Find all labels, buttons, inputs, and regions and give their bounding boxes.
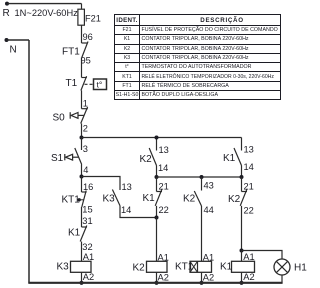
svg-text:4: 4	[83, 165, 88, 175]
svg-text:K2: K2	[228, 194, 241, 205]
svg-text:43: 43	[204, 181, 214, 191]
wire top branch line	[82, 137, 242, 139]
wire node3 to S1	[81, 138, 83, 151]
wire node4 to K3 contact	[82, 177, 121, 191]
contact K2 43-44 (NO)	[194, 191, 201, 206]
contact KT1 15-16 timed	[78, 191, 87, 208]
svg-text:A2: A2	[83, 272, 94, 282]
svg-text:1N~220V-60Hz: 1N~220V-60Hz	[15, 8, 79, 18]
coil K3	[71, 261, 92, 272]
svg-text:T1: T1	[66, 78, 78, 89]
svg-text:3: 3	[83, 144, 88, 154]
wire D down to K2 43	[201, 177, 203, 191]
junction K2-rail	[154, 281, 158, 285]
wire fuse to FT1	[81, 25, 83, 43]
wire to K1 coil	[241, 251, 243, 262]
contact T1 thermostat	[81, 76, 87, 90]
svg-text:14: 14	[158, 163, 168, 173]
svg-text:H1: H1	[294, 262, 307, 273]
wire line2 C to E	[157, 176, 242, 178]
wire K2 coil to rail	[156, 272, 158, 283]
svg-text:A2: A2	[243, 272, 254, 282]
svg-text:KT1: KT1	[175, 261, 194, 272]
wire FT1 to T1	[81, 58, 83, 78]
wire S0 to node2	[81, 124, 83, 138]
wire K2-22 to lamp junction	[241, 206, 243, 251]
node R supply dot	[5, 2, 9, 6]
svg-text:S0: S0	[53, 112, 66, 123]
node line2 E	[240, 175, 244, 179]
wire K1-14 to line2	[241, 166, 243, 178]
t-box link dashed	[85, 83, 94, 85]
svg-text:K1: K1	[223, 153, 236, 164]
legend table	[114, 14, 281, 100]
wire bottom rail	[28, 282, 282, 284]
svg-text:13: 13	[244, 144, 254, 154]
svg-text:16: 16	[83, 182, 93, 192]
svg-text:22: 22	[159, 205, 169, 215]
svg-text:A1: A1	[158, 252, 169, 262]
svg-text:96: 96	[83, 32, 93, 42]
svg-text:14: 14	[244, 162, 254, 172]
svg-text:95: 95	[81, 55, 91, 65]
pushbutton S1 (NO)	[65, 148, 82, 165]
svg-text:K2: K2	[140, 154, 153, 165]
svg-text:15: 15	[82, 205, 92, 215]
coil K2	[147, 261, 168, 272]
wire N rail vertical	[28, 40, 30, 283]
svg-text:1: 1	[83, 98, 88, 108]
svg-text:A1: A1	[203, 252, 214, 262]
svg-text:32: 32	[82, 242, 92, 252]
junction lamp tap	[240, 249, 244, 253]
svg-text:FT1: FT1	[62, 46, 80, 57]
node 2-3 junction	[80, 136, 84, 140]
svg-text:44: 44	[204, 205, 214, 215]
svg-text:S1: S1	[51, 153, 64, 164]
wire K1 coil to rail	[241, 272, 243, 283]
contact K1 31-32 (NC)	[80, 226, 87, 242]
contact K1 13-14 (NO)	[234, 148, 242, 166]
svg-text:21: 21	[159, 182, 169, 192]
wire lamp branch	[242, 251, 283, 260]
svg-text:2: 2	[83, 124, 88, 134]
contact K2 13-14 (NO)	[149, 148, 156, 166]
svg-text:K1: K1	[143, 193, 156, 204]
node line2 D	[200, 175, 204, 179]
svg-text:R: R	[3, 8, 10, 19]
svg-text:K1: K1	[68, 227, 81, 238]
svg-text:K2: K2	[183, 194, 196, 205]
wire K1-22 to junction	[156, 206, 158, 218]
node 4 junction	[80, 175, 84, 179]
svg-text:t°: t°	[97, 80, 103, 90]
wire C down to K1 21	[156, 177, 158, 192]
wire E down to K2 21	[241, 177, 243, 192]
svg-text:13: 13	[122, 182, 132, 192]
wire R rail horizontal	[7, 3, 82, 5]
wire K1-32 to K3 coil	[81, 242, 83, 262]
junction KT1-rail	[199, 281, 203, 285]
wire KT1 to K1 31	[81, 207, 83, 227]
svg-text:A1: A1	[243, 252, 254, 262]
wire K2-14 to line2	[156, 166, 158, 178]
wire K1 13 drop	[241, 138, 243, 151]
contact K3 13-14 (NO)	[112, 190, 120, 206]
svg-text:K3: K3	[103, 194, 116, 205]
svg-text:A1: A1	[83, 252, 94, 262]
wire K3-14 down and right to K2 coil branch	[120, 206, 157, 218]
svg-text:31: 31	[82, 216, 92, 226]
wire N horizontal	[7, 39, 30, 41]
svg-text:A2: A2	[158, 273, 169, 283]
contact K2 21-22 (NC)	[240, 190, 247, 206]
wire to K2 coil	[156, 218, 158, 262]
junction K3 link / K2 coil	[155, 216, 159, 220]
node top line K2 tap	[155, 136, 159, 140]
wire K3 coil to rail	[81, 272, 83, 283]
t-box	[94, 79, 107, 90]
node N supply dot	[5, 38, 9, 42]
junction K3-rail	[79, 281, 83, 285]
svg-text:22: 22	[244, 206, 254, 216]
svg-text:A2: A2	[203, 273, 214, 283]
svg-text:KT1: KT1	[62, 195, 81, 206]
contact K1 21-22 (NC)	[155, 190, 162, 206]
wire K2 13 drop	[156, 138, 158, 151]
wire KT1 coil to rail	[201, 272, 203, 283]
svg-text:K3: K3	[57, 262, 70, 273]
wire down to fuse	[81, 4, 83, 10]
svg-text:13: 13	[159, 145, 169, 155]
pushbutton S0 (NC)	[70, 107, 88, 124]
fuse F21	[78, 9, 85, 25]
wire node4 down to KT1 contact	[81, 177, 83, 193]
junction K1-rail	[239, 281, 243, 285]
svg-text:N: N	[10, 45, 17, 56]
svg-text:21: 21	[244, 182, 254, 192]
wire T1 to S0	[81, 91, 83, 109]
svg-text:F21: F21	[85, 14, 101, 24]
wire K2-44 to KT1 coil	[201, 206, 203, 261]
svg-text:14: 14	[121, 205, 131, 215]
node line2 C	[155, 175, 159, 179]
wire lamp to rail	[281, 275, 283, 283]
lamp H1	[274, 259, 290, 275]
contact FT1 (NC overload)	[82, 42, 89, 58]
wire S1 to node4	[81, 165, 83, 177]
coil K1	[232, 261, 255, 272]
coil KT1 with timer box	[190, 261, 212, 272]
svg-text:K1: K1	[220, 262, 233, 273]
svg-text:K2: K2	[133, 263, 146, 274]
